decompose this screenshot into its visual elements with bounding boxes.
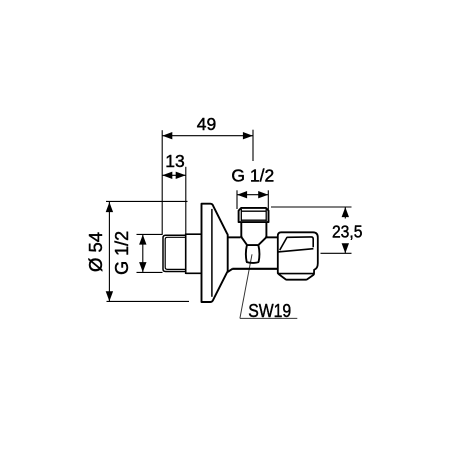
svg-text:13: 13 <box>165 151 184 171</box>
dimension G 1/2 left line <box>142 235 144 272</box>
dimension G 1/2 top line <box>237 194 268 196</box>
cylinder between thread and flange <box>186 234 202 275</box>
dimension D54 line <box>108 202 110 301</box>
knob waist line <box>278 249 313 252</box>
knob inner recess <box>280 237 314 250</box>
dimension G 1/2 left arrowheads <box>139 235 146 273</box>
dimension G 1/2 top arrowheads <box>237 191 268 198</box>
dimension 23,5 line stubs <box>344 207 346 253</box>
extension line left (shared 49/13) <box>161 130 163 235</box>
knob base line <box>278 273 313 275</box>
pipe walls <box>241 222 266 237</box>
svg-text:49: 49 <box>197 114 216 134</box>
thread G1/2 left root lines <box>165 237 186 269</box>
thread G1/2 left outer <box>163 235 186 271</box>
extension lines G 1/2 left <box>137 234 163 272</box>
svg-text:23,5: 23,5 <box>332 221 363 241</box>
body neck bottom chamfer <box>228 269 233 272</box>
SW19 leader line <box>240 254 252 318</box>
dimension 49 arrowheads <box>162 132 253 139</box>
SW19 underline <box>240 317 297 319</box>
body bottom edge <box>232 268 277 270</box>
dimension 13 line <box>162 174 186 176</box>
svg-text:G 1/2: G 1/2 <box>231 166 274 186</box>
bell rim silhouette line <box>211 209 213 297</box>
pipe collar root lines <box>241 209 266 221</box>
dimension D54 arrowheads <box>106 202 113 301</box>
bell flange and cone outline <box>202 204 228 302</box>
extension lines D54 <box>106 201 189 301</box>
svg-text:Ø 54: Ø 54 <box>85 232 106 272</box>
pipe collar outer (top G1/2 thread) <box>239 208 269 222</box>
extension lines G 1/2 top <box>237 190 268 209</box>
knob outline <box>278 232 318 279</box>
body top edge left segment <box>228 236 241 238</box>
hex SW19 barrel <box>246 245 260 263</box>
extension line right of 13 <box>185 167 187 234</box>
centerline extension right of 49 <box>252 130 254 161</box>
body top edge right segment <box>266 236 277 238</box>
svg-text:SW19: SW19 <box>248 301 291 321</box>
dimension 23,5 arrowheads <box>342 207 349 253</box>
dimension 49 line <box>162 135 253 137</box>
dimension 13 arrowheads <box>162 172 185 179</box>
svg-text:G 1/2: G 1/2 <box>112 231 132 275</box>
pipe to hex transition diagonals <box>241 236 266 245</box>
extension lines 23,5 <box>271 207 352 253</box>
